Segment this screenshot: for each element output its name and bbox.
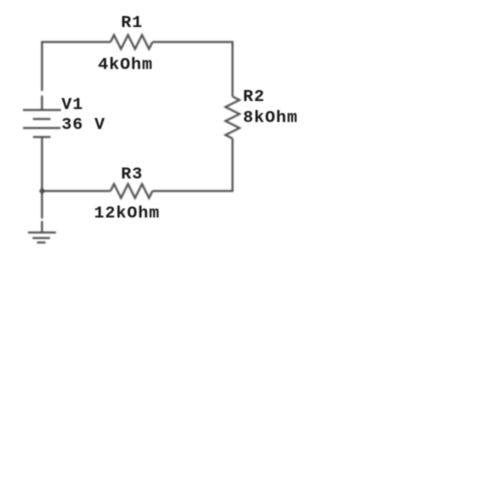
- junction node: [39, 188, 45, 194]
- battery V1 plate short bottom: [33, 136, 51, 138]
- svg-text:4kOhm: 4kOhm: [98, 56, 153, 75]
- resistor R2: [226, 97, 240, 139]
- svg-text:36 V: 36 V: [62, 116, 106, 135]
- wire junction down: [41, 191, 43, 219]
- svg-text:R3: R3: [121, 166, 143, 185]
- ground bar 1: [28, 232, 56, 234]
- svg-text:R2: R2: [243, 88, 265, 107]
- ground bar 3: [37, 242, 46, 244]
- svg-text:V1: V1: [62, 96, 84, 115]
- wire battery to junction: [41, 138, 43, 191]
- resistor R3: [111, 184, 153, 198]
- battery V1 plate long top: [23, 109, 61, 111]
- battery V1 lead top: [41, 96, 43, 110]
- wire R3 to junction: [42, 190, 111, 192]
- resistor R1: [111, 35, 153, 49]
- wire R1 to top-right corner: [153, 42, 233, 97]
- ground bar 2: [33, 237, 51, 239]
- battery V1 plate short: [33, 118, 51, 120]
- ground stem: [41, 221, 43, 232]
- wire top-left to R1: [42, 42, 111, 91]
- svg-text:12kOhm: 12kOhm: [94, 205, 160, 224]
- battery V1 plate long bottom: [23, 127, 61, 129]
- wire R2 to bottom-right corner: [153, 139, 233, 192]
- svg-text:8kOhm: 8kOhm: [243, 109, 298, 128]
- svg-text:R1: R1: [121, 14, 143, 33]
